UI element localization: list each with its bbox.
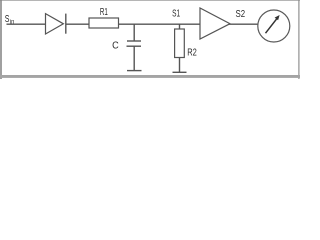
wire capacitor to ground — [133, 46, 135, 70]
ground bar under C — [127, 70, 142, 72]
wire R2 to ground — [179, 58, 181, 73]
svg-text:R2: R2 — [187, 48, 197, 59]
svg-text:S1: S1 — [172, 8, 180, 19]
diode cathode bar — [65, 14, 67, 34]
capacitor C (plates) — [127, 41, 142, 46]
svg-text:R1: R1 — [100, 7, 108, 18]
ground bar under R2 — [173, 71, 187, 73]
wire capacitor stub down from main wire — [133, 24, 135, 41]
node Sin (input label) — [5, 14, 15, 25]
wire R1 to amplifier input (through C and R2 taps) — [119, 23, 201, 25]
svg-text:S2: S2 — [236, 9, 246, 20]
meter needle arrow — [266, 15, 280, 33]
meter M (circle) — [258, 10, 290, 42]
border frame — [0, 0, 300, 79]
svg-text:C: C — [112, 41, 119, 52]
diode D (triangle) — [46, 14, 64, 34]
svg-text:S: S — [5, 14, 10, 25]
wire amplifier output to meter — [229, 23, 258, 25]
wire R2 stub down from main wire — [179, 24, 181, 29]
wire input to diode anode — [7, 23, 46, 25]
resistor R1 (box) — [89, 18, 119, 28]
wire diode to R1 — [66, 23, 89, 25]
resistor R2 (box) — [175, 29, 185, 58]
op-amp U1 (amplifier triangle) — [200, 8, 230, 39]
